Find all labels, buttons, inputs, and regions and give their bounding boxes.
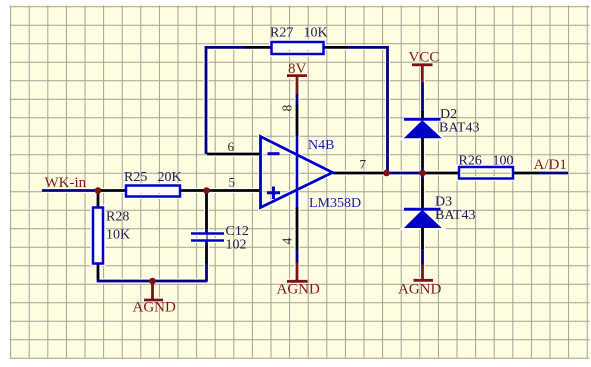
svg-text:10K: 10K (106, 228, 130, 243)
wire R28 pins (97, 191, 100, 279)
wire C12 pin stubs at plates (205, 228, 208, 247)
pin 6 line (207, 153, 261, 156)
svg-text:R27: R27 (270, 26, 293, 41)
junction node WK/R28 (95, 187, 102, 194)
pin 5 line (206, 189, 261, 192)
svg-text:4: 4 (280, 238, 295, 245)
svg-text:BAT43: BAT43 (435, 208, 475, 223)
power 8V symbol (287, 76, 307, 94)
svg-text:102: 102 (226, 238, 247, 253)
svg-text:A/D1: A/D1 (534, 157, 567, 173)
svg-text:8: 8 (280, 105, 295, 112)
svg-text:100: 100 (493, 154, 514, 169)
diode D3 (404, 208, 441, 211)
ground AGND right symbol (414, 264, 434, 280)
svg-text:R28: R28 (106, 210, 129, 225)
op-amp plus input mark (267, 187, 280, 200)
wire input node to pin5 stub (204, 189, 208, 192)
svg-text:LM358D: LM358D (309, 196, 361, 211)
op-amp U1 vertical symbol line (296, 136, 299, 207)
wire R26 to A/D1 (539, 172, 568, 175)
resistor R25 (126, 186, 180, 197)
diode D2 (404, 118, 441, 121)
wire R26 pins (424, 172, 539, 175)
ground AGND left symbol (144, 281, 163, 300)
wire pin4 to AGND (296, 248, 299, 263)
svg-text:R26: R26 (459, 154, 482, 169)
svg-text:N4B: N4B (308, 138, 334, 153)
pin 4 line (296, 207, 299, 249)
wire R25 pins (100, 189, 206, 192)
wire feedback loop left+top (206, 47, 246, 154)
wire 8V to pin8 (296, 93, 299, 106)
wire bottom ground rail (97, 262, 208, 281)
junction node R25/C12/pin5 (203, 187, 210, 194)
junction node ground rail (149, 278, 156, 285)
wire R27 pins (245, 46, 348, 49)
pins (black) (98, 47, 539, 278)
resistor R27 (272, 42, 324, 54)
svg-text:10K: 10K (304, 26, 328, 41)
wire D2 to junction to D3 (421, 166, 424, 180)
wire WK-in input (42, 189, 102, 192)
wire ghost between C12 plates (206, 234, 208, 240)
junction node output/feedback (383, 170, 390, 177)
wire C12 pins (205, 191, 208, 263)
svg-text:20K: 20K (158, 170, 182, 185)
wire D3 pins (421, 179, 424, 249)
svg-text:AGND: AGND (277, 282, 320, 298)
pin 8 line (296, 105, 299, 136)
wire output junction to diode junction (385, 172, 424, 175)
power VCC symbol (412, 65, 433, 83)
svg-text:7: 7 (360, 157, 367, 172)
svg-text:AGND: AGND (398, 282, 441, 298)
op-amp minus input mark (268, 152, 280, 155)
svg-text:WK-in: WK-in (45, 175, 87, 191)
op-amp U1 triangle (261, 137, 333, 208)
svg-text:R25: R25 (124, 170, 147, 185)
capacitor C12 plates (191, 232, 224, 235)
wire D2 pins (421, 111, 424, 167)
wire feedback loop right (348, 47, 388, 173)
pin 7 output line (333, 172, 386, 175)
resistor R26 (459, 167, 513, 179)
svg-text:BAT43: BAT43 (439, 121, 479, 136)
svg-text:6: 6 (228, 139, 235, 154)
svg-text:8V: 8V (288, 61, 307, 77)
svg-text:5: 5 (229, 175, 236, 190)
svg-text:VCC: VCC (409, 50, 440, 66)
white halos under all wires and symbols (42, 42, 568, 300)
wires (navy) (42, 47, 568, 281)
wire D3 to AGND (421, 248, 424, 266)
junction node output/diodes (419, 170, 426, 177)
ground AGND middle symbol (287, 262, 308, 281)
resistor R28 (93, 208, 103, 264)
svg-text:AGND: AGND (133, 300, 176, 316)
wire VCC to D2 (421, 82, 424, 112)
